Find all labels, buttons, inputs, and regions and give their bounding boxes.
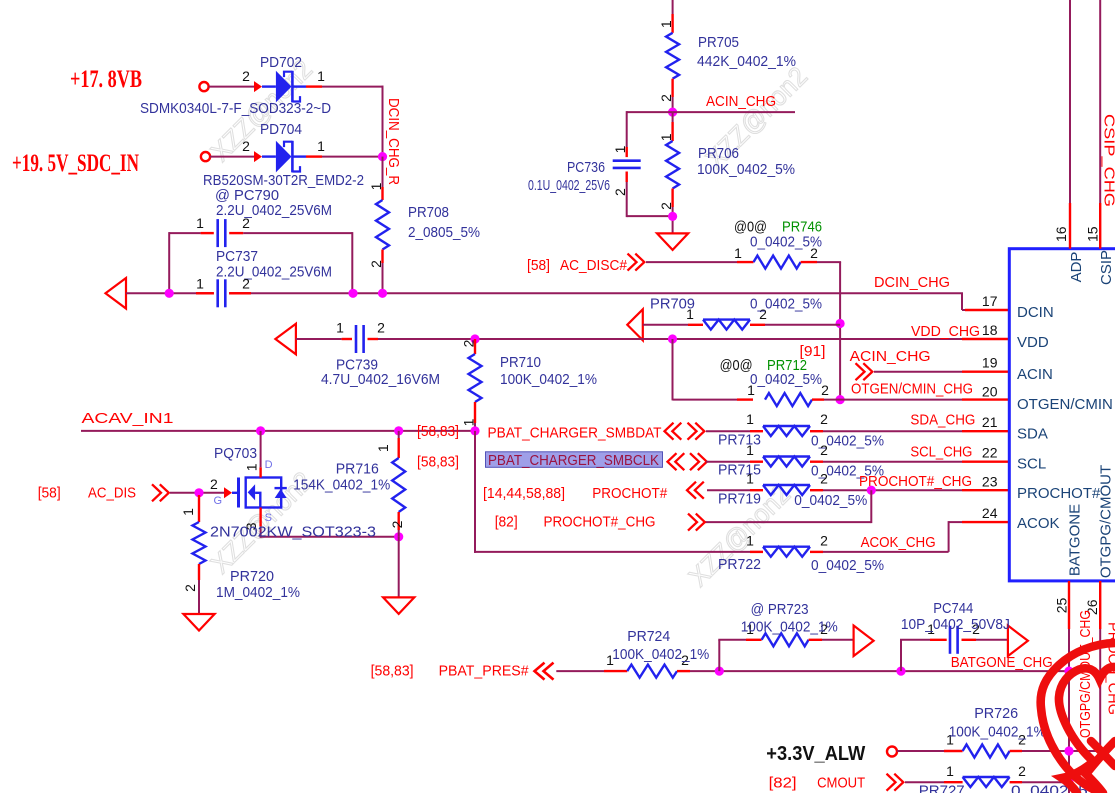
- svg-text:1: 1: [196, 276, 204, 292]
- svg-text:2: 2: [389, 520, 405, 528]
- ground PQ703: [383, 597, 414, 614]
- wire PC790 left: [169, 232, 200, 234]
- svg-text:[58]: [58]: [38, 485, 61, 502]
- svg-text:+17. 8VB: +17. 8VB: [70, 66, 142, 93]
- value PC739: [321, 371, 440, 388]
- svg-text:18: 18: [982, 322, 998, 338]
- power flag +17.8VB: [70, 66, 142, 93]
- off-page arrow PR709 left: [627, 309, 643, 340]
- pin 2 label PD704: [242, 138, 250, 154]
- pin 1 label PR715: [746, 442, 754, 458]
- resistor PR709: [703, 320, 750, 330]
- pin stub red PR709 pin1: [688, 324, 703, 326]
- terminal circle +3.3V_ALW: [887, 747, 897, 757]
- ref label [14,44,58,88]: [483, 485, 565, 502]
- svg-text:CMOUT: CMOUT: [817, 775, 865, 792]
- label PR705: [698, 34, 739, 51]
- wire PR723 branch: [718, 640, 746, 671]
- svg-text:442K_0402_1%: 442K_0402_1%: [697, 53, 796, 70]
- pin names left: [1017, 304, 1113, 532]
- junction ACIN_CHG: [668, 108, 677, 117]
- pin stub red PR708 pin2: [381, 250, 383, 264]
- pin 2 label PD702: [242, 68, 250, 84]
- pin stub red PQ703 source: [259, 508, 261, 527]
- value PR726: [949, 724, 1046, 741]
- net label OTGEN/CMIN_CHG: [851, 381, 973, 398]
- terminal circle PD704 anode: [201, 152, 210, 161]
- pin stub red DCIN pin17: [965, 309, 1009, 311]
- label PR713: [718, 432, 761, 449]
- net label SCL_CHG: [910, 444, 972, 461]
- junction PC744: [896, 667, 905, 676]
- wire PR720 to gnd: [198, 580, 200, 614]
- pin 1 label PD702: [317, 68, 325, 84]
- svg-text:1: 1: [196, 215, 204, 231]
- label PR709: [650, 296, 695, 313]
- svg-text:2_0805_5%: 2_0805_5%: [408, 224, 480, 241]
- label @0@ PR746: [734, 219, 822, 236]
- junction PR723: [715, 667, 724, 676]
- junction VDD PR710: [470, 334, 479, 343]
- svg-text:100K_0402_1%: 100K_0402_1%: [949, 724, 1046, 741]
- junction DCIN_CHG_R: [378, 152, 387, 161]
- svg-text:PBAT_PRES#: PBAT_PRES#: [439, 663, 530, 680]
- label PR724: [627, 628, 670, 645]
- net label ACIN_CHG 2: [850, 348, 931, 365]
- label PC744: [933, 600, 973, 617]
- svg-text:[91]: [91]: [800, 343, 826, 360]
- value PR727: [1011, 783, 1103, 793]
- label PR708: [408, 204, 449, 221]
- wire PR710 to ACAV: [474, 423, 476, 431]
- svg-text:AC_DISC#: AC_DISC#: [560, 257, 628, 274]
- junction PR746 PR709: [836, 319, 845, 328]
- off-page chevrons CMOUT: [887, 774, 904, 791]
- junction ACAV PR716: [394, 426, 403, 435]
- value PR713: [811, 433, 884, 450]
- net label PBAT_CHARGER_SMBCLK: [488, 452, 659, 469]
- label PC739: [336, 357, 378, 374]
- svg-text:22: 22: [982, 445, 998, 461]
- pin stub red PQ703 drain: [259, 467, 261, 477]
- svg-text:0_0402_5%: 0_0402_5%: [750, 371, 822, 388]
- svg-text:PD702: PD702: [260, 54, 302, 71]
- ref label [91]: [800, 343, 826, 360]
- capacitor PC739: [356, 325, 364, 353]
- net label VDD_CHG: [911, 323, 980, 340]
- svg-text:ACAV_IN1: ACAV_IN1: [82, 410, 174, 427]
- svg-text:2.2U_0402_25V6M: 2.2U_0402_25V6M: [216, 264, 332, 281]
- svg-text:2N7002KW_SOT323-3: 2N7002KW_SOT323-3: [210, 524, 376, 541]
- pin 1 label PR719: [746, 471, 754, 487]
- value PC736: [528, 177, 610, 194]
- pin stub red PR720 pin1: [198, 495, 200, 522]
- svg-text:VDD: VDD: [1017, 334, 1049, 351]
- label @PC790: [215, 187, 279, 204]
- pin 1 label PR710: [461, 418, 477, 426]
- pin 1 label PR724: [606, 652, 614, 668]
- svg-text:DCIN_CHG_R: DCIN_CHG_R: [385, 98, 402, 185]
- wire VDD_CHG: [378, 338, 962, 340]
- resistor PR706: [666, 141, 679, 189]
- junction PR746 PR712: [836, 395, 845, 404]
- pin 2 label PR713: [820, 411, 828, 427]
- pin stub red PR722 pin1: [750, 551, 763, 553]
- label PR719: [718, 491, 761, 508]
- wire CMOUT: [905, 781, 944, 783]
- pin name D: [265, 459, 273, 471]
- svg-text:D: D: [265, 459, 273, 471]
- off-page arrow PR723: [854, 626, 874, 657]
- svg-text:1: 1: [946, 763, 954, 779]
- ref label [58] AC_DISC#: [527, 257, 550, 274]
- value PR746: [750, 234, 822, 251]
- label PR726: [974, 705, 1018, 722]
- label PD704: [260, 121, 302, 138]
- svg-text:PC736: PC736: [567, 159, 605, 176]
- value RB520SM-30T2R_EMD2-2: [203, 172, 364, 189]
- svg-text:1: 1: [336, 320, 344, 336]
- value PR715: [811, 463, 884, 480]
- pin 1 label PR746: [734, 245, 742, 261]
- pin number 16: [1053, 226, 1069, 242]
- pin 2 label PR715: [820, 442, 828, 458]
- net label DCIN_CHG: [874, 274, 950, 291]
- off-page arrow DCIN left: [106, 278, 127, 309]
- svg-text:[82]: [82]: [495, 514, 518, 531]
- value PC790: [216, 202, 332, 219]
- pin stub red VDD pin18: [962, 338, 1009, 340]
- svg-text:CSIP_CHG: CSIP_CHG: [1101, 114, 1115, 207]
- pin name ADP: [1068, 252, 1085, 283]
- junction PROCHOT: [867, 486, 876, 495]
- svg-text:10P_0402_50V8J: 10P_0402_50V8J: [901, 616, 1010, 633]
- junction main 1: [165, 289, 174, 298]
- svg-text:G: G: [214, 495, 223, 507]
- wire PROCHOT to pin23: [823, 489, 962, 491]
- svg-text:2: 2: [612, 188, 628, 196]
- wire +3.3V to PR726: [897, 750, 944, 752]
- svg-text:2: 2: [820, 471, 828, 487]
- pin stub red OTGEN pin20: [962, 398, 1009, 400]
- value 2N7002KW_SOT323-3: [210, 524, 376, 541]
- svg-text:100K_0402_1%: 100K_0402_1%: [612, 646, 709, 663]
- pin stub red PC736 pin2: [626, 172, 628, 183]
- wire SCL to pin22: [823, 461, 962, 463]
- svg-text:[82]: [82]: [769, 775, 797, 792]
- svg-text:1: 1: [658, 133, 674, 141]
- svg-text:ADP: ADP: [1068, 252, 1085, 283]
- svg-text:ACIN_CHG: ACIN_CHG: [706, 93, 776, 110]
- svg-text:2: 2: [820, 442, 828, 458]
- pin 2 label PR724: [681, 652, 689, 668]
- net label fragment right edge: [1105, 622, 1115, 715]
- pin stub red PR712 pin2: [812, 398, 824, 400]
- pin name OTGPG/CMOUT: [1098, 465, 1115, 578]
- off-page chevrons SMBDAT: [665, 423, 705, 440]
- svg-text:PR710: PR710: [500, 354, 541, 371]
- svg-text:PR705: PR705: [698, 34, 739, 51]
- label PR722: [718, 556, 761, 573]
- label PR706: [698, 145, 739, 162]
- ref label [58,83] PBAT_PRES#: [371, 663, 414, 680]
- pin stub red PR710 pin2: [474, 339, 476, 354]
- pin 2 label PR726: [1018, 732, 1026, 748]
- resistor PR722: [763, 547, 810, 557]
- pin numbers left: [982, 293, 998, 521]
- wire PROCHOT down: [705, 490, 872, 523]
- net label PBAT_CHARGER_SMBDAT: [488, 425, 662, 442]
- wire pin24: [949, 521, 962, 523]
- svg-text:154K_0402_1%: 154K_0402_1%: [293, 477, 390, 494]
- svg-text:PR716: PR716: [336, 461, 379, 478]
- pin 2 label PR746: [810, 245, 818, 261]
- pin 1 label PC744: [927, 621, 935, 637]
- pin 2 label PC744: [972, 621, 980, 637]
- pin 1 label PR706: [658, 133, 674, 141]
- watermark XZZ@non2: [205, 54, 813, 592]
- wire OTGPG down: [1099, 629, 1101, 752]
- pin 1 label PR726: [946, 732, 954, 748]
- resistor PR723: [762, 633, 809, 646]
- svg-text:ACIN_CHG: ACIN_CHG: [850, 348, 931, 365]
- svg-text:1: 1: [180, 508, 196, 516]
- svg-text:PR706: PR706: [698, 145, 739, 162]
- pin number 25: [1054, 598, 1070, 614]
- net label PROCHOT#_CHG left: [544, 514, 656, 531]
- svg-text:2: 2: [820, 533, 828, 549]
- net label AC_DISC#: [560, 257, 628, 274]
- pin 2 label PR705: [658, 94, 674, 102]
- wire PD704 cathode blue: [293, 155, 306, 157]
- resistor PR710: [469, 354, 482, 402]
- wire SCL row: [706, 461, 750, 463]
- svg-text:2: 2: [182, 584, 198, 592]
- wire PBAT_PRES# right: [690, 670, 1069, 672]
- net label BATGONE_CHG: [951, 654, 1053, 671]
- wire PR726 right: [1022, 750, 1100, 752]
- value PR712: [750, 371, 822, 388]
- svg-text:[14,44,58,88]: [14,44,58,88]: [483, 485, 565, 502]
- wire PBAT_PRES#: [556, 670, 604, 672]
- svg-text:PROCHOT#: PROCHOT#: [1017, 485, 1101, 502]
- svg-text:2: 2: [242, 276, 250, 292]
- svg-text:2: 2: [242, 215, 250, 231]
- ground PR720: [183, 614, 214, 631]
- label PQ703: [214, 445, 257, 462]
- svg-text:0_0402_5%: 0_0402_5%: [750, 234, 822, 251]
- pin number 15: [1085, 226, 1101, 242]
- svg-text:1: 1: [375, 444, 391, 452]
- pin arrow PD704 pin2: [254, 151, 262, 162]
- pin stub red PR716 pin2: [398, 512, 400, 530]
- pin stub red PR719 pin2: [810, 489, 823, 491]
- svg-text:ACOK: ACOK: [1017, 515, 1060, 532]
- off-page chevrons AC_DISC#: [628, 254, 645, 271]
- pin stub red ACIN pin19: [962, 371, 1009, 373]
- svg-text:1: 1: [746, 442, 754, 458]
- wire DCIN_CHG_R vertical: [382, 157, 384, 187]
- value PR709: [750, 296, 822, 313]
- pin 1 label PR720: [180, 508, 196, 516]
- label PR727: [919, 783, 965, 793]
- junction ACAV PR710: [470, 426, 479, 435]
- svg-text:25: 25: [1054, 598, 1070, 614]
- junction VDD PR712 branch: [668, 334, 677, 343]
- pin stub red PC737 pin2 overlay: [229, 292, 251, 294]
- pin stub red PC744 pin1: [930, 639, 947, 641]
- wire PR705 to ACIN node: [672, 97, 674, 112]
- capacitor PC736: [613, 161, 641, 168]
- svg-text:PC744: PC744: [933, 600, 973, 617]
- resistor PR746: [754, 256, 801, 269]
- svg-text:VDD_CHG: VDD_CHG: [911, 323, 980, 340]
- pin stub red PR726 pin2: [1010, 750, 1022, 752]
- transistor PQ703: [232, 478, 287, 508]
- wire stub blue PD704: [262, 155, 276, 157]
- wire PD704 to junction: [322, 156, 384, 158]
- pin 1 label PC790: [196, 215, 204, 231]
- net label PROCHOT#_CHG right: [859, 473, 972, 490]
- svg-text:1: 1: [658, 20, 674, 28]
- off-page chevrons SMBCLK: [668, 453, 707, 470]
- pin 1 label PR709: [686, 306, 694, 322]
- pin 2 label PR719: [820, 471, 828, 487]
- wire ACAV to drain: [260, 431, 262, 467]
- wire ADP top: [1069, 0, 1071, 203]
- svg-text:1: 1: [746, 471, 754, 487]
- svg-text:2.2U_0402_25V6M: 2.2U_0402_25V6M: [216, 202, 332, 219]
- wire ACIN node down: [672, 112, 674, 122]
- pin 1 label PR712: [747, 382, 755, 398]
- net label AC_DIS: [88, 485, 136, 502]
- pin stub red PR720 pin2: [198, 564, 200, 580]
- pin 1 label PR722: [746, 533, 754, 549]
- svg-text:16: 16: [1053, 226, 1069, 242]
- svg-text:1: 1: [734, 245, 742, 261]
- svg-text:PBAT_CHARGER_SMBCLK: PBAT_CHARGER_SMBCLK: [488, 452, 659, 469]
- svg-text:ACIN: ACIN: [1017, 366, 1053, 383]
- resistor PR705: [666, 33, 679, 79]
- svg-text:AC_DIS: AC_DIS: [88, 485, 136, 502]
- wire PC736 loop top: [627, 111, 673, 147]
- pin stub red CSIP pin15: [1099, 203, 1101, 249]
- wire DCIN_CHG main: [126, 293, 965, 310]
- off-page chevrons PROCHOT#: [687, 482, 704, 499]
- svg-text:PROCHOT#: PROCHOT#: [592, 485, 668, 502]
- value SDMK0340L-7-F_SOD323-2~D: [140, 100, 331, 117]
- label PR710: [500, 354, 541, 371]
- wire PC736 loop bottom: [627, 182, 673, 217]
- pin 2 label PR723: [820, 621, 828, 637]
- svg-text:PROCHOT#_CHG: PROCHOT#_CHG: [544, 514, 656, 531]
- svg-text:+3.3V_ALW: +3.3V_ALW: [766, 743, 865, 765]
- diode PD702: [276, 71, 300, 103]
- pin 2 label PR716: [389, 520, 405, 528]
- wire PC744 branch: [900, 640, 930, 671]
- net label ACOK_CHG: [861, 534, 936, 551]
- wire AC_DISC# to PR746: [646, 261, 737, 263]
- svg-text:[58,83]: [58,83]: [371, 663, 414, 680]
- svg-text:2: 2: [820, 411, 828, 427]
- svg-text:[58]: [58]: [527, 257, 550, 274]
- pin 1 label PD704: [317, 138, 325, 154]
- svg-text:PR709: PR709: [650, 296, 695, 313]
- wire PR727 right: [1022, 781, 1069, 783]
- value PC737: [216, 264, 332, 281]
- svg-text:19: 19: [982, 355, 998, 371]
- pin 2 label PR727: [1018, 763, 1026, 779]
- resistor PR716: [392, 458, 405, 512]
- svg-text:DCIN_CHG: DCIN_CHG: [874, 274, 950, 291]
- svg-text:PR708: PR708: [408, 204, 449, 221]
- pin stub red PC737 pin2: [229, 292, 251, 294]
- net label ACIN_CHG: [706, 93, 776, 110]
- off-page chevrons PBAT_PRES#: [535, 663, 554, 680]
- wire VDD to PR712: [673, 339, 738, 400]
- svg-text:23: 23: [982, 474, 998, 490]
- svg-text:0.1U_0402_25V6: 0.1U_0402_25V6: [528, 177, 610, 194]
- svg-text:2: 2: [377, 320, 385, 336]
- wire PR716 to source row: [398, 530, 400, 537]
- ref label [58,83] SMBDAT: [417, 423, 459, 440]
- net label CSIP_CHG: [1101, 114, 1115, 207]
- svg-text:100K_0402_5%: 100K_0402_5%: [697, 161, 795, 178]
- value PR724: [612, 646, 709, 663]
- pin stub red PD704 pin1: [306, 155, 322, 157]
- net label PBAT_PRES#: [439, 663, 530, 680]
- junction main 2: [348, 289, 357, 298]
- label @PR723: [751, 601, 809, 618]
- wire stub blue PD702: [262, 85, 276, 87]
- pin stub red PC790 pin1: [201, 232, 214, 234]
- pin name G: [214, 495, 223, 507]
- junction source PR716: [394, 532, 403, 541]
- svg-text:SCL: SCL: [1017, 456, 1046, 473]
- power flag +19.5V_SDC_IN: [12, 150, 139, 177]
- net label SDA_CHG: [910, 412, 975, 429]
- pin stub red PC737 pin1 overlay: [196, 292, 214, 294]
- pin stub red PR722 pin2: [810, 551, 823, 553]
- wire PR709 left: [643, 324, 688, 326]
- svg-text:SDA: SDA: [1017, 426, 1048, 443]
- pin stub red PR713 pin1: [750, 430, 763, 432]
- svg-text:SCL_CHG: SCL_CHG: [910, 444, 972, 461]
- pin 2 label PQ703 gate: [210, 476, 218, 492]
- wire PC790 right: [243, 232, 352, 293]
- pin 1 label PR727: [946, 763, 954, 779]
- label PC737: [216, 248, 258, 265]
- value PR720: [216, 584, 300, 601]
- junction PR706 gnd: [668, 212, 677, 221]
- wire ACIN_CHG right: [673, 111, 795, 113]
- wire ACAV down to ACOK row: [474, 431, 763, 553]
- pin stub red PC739 pin1: [342, 338, 352, 340]
- svg-text:2: 2: [1018, 763, 1026, 779]
- diode PD704: [276, 141, 300, 173]
- svg-text:4.7U_0402_16V6M: 4.7U_0402_16V6M: [321, 371, 440, 388]
- svg-text:OTGPG/CMOUT: OTGPG/CMOUT: [1098, 465, 1115, 578]
- svg-text:PR724: PR724: [627, 628, 670, 645]
- wire PR723 to arrow: [822, 639, 854, 641]
- svg-text:100K_0402_1%: 100K_0402_1%: [500, 371, 597, 388]
- pin 2 label PR712: [821, 382, 829, 398]
- wire AC_DIS to gate: [170, 492, 224, 494]
- svg-text:PD704: PD704: [260, 121, 302, 138]
- value PR706: [697, 161, 795, 178]
- pin 1 label PR723: [746, 621, 754, 637]
- svg-text:OTGEN/CMIN: OTGEN/CMIN: [1017, 396, 1113, 413]
